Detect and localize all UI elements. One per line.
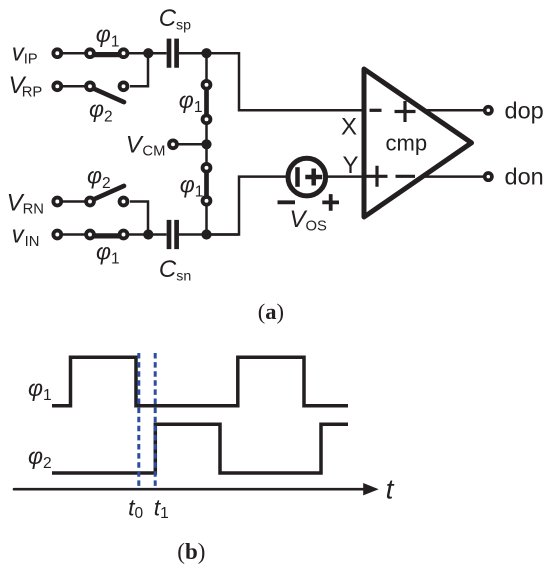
- svg-text:(b): (b): [177, 539, 205, 564]
- svg-text:(a): (a): [258, 299, 284, 324]
- svg-text:dop: dop: [505, 98, 544, 124]
- svg-text:cmp: cmp: [386, 130, 428, 155]
- svg-text:t: t: [386, 474, 395, 505]
- svg-text:Y: Y: [343, 152, 359, 179]
- svg-text:X: X: [341, 113, 357, 140]
- svg-text:don: don: [505, 163, 544, 189]
